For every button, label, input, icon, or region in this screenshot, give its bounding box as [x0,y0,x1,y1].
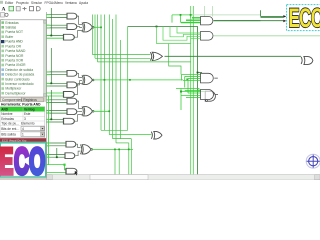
XOR2 output wire long [93,79,183,81]
dark vertical net [128,27,198,175]
property grid [0,107,45,138]
svg-text:Herramienta: Puerta AND: Herramienta: Puerta AND [1,103,41,107]
svg-text:Salidas: Salidas [5,26,16,30]
gate-to-xor elbows cluster 4 [76,144,81,156]
bright selected wires into AND3a [181,18,201,23]
svg-text:FPGA4Menu: FPGA4Menu [45,1,64,5]
bright wire into XOR5 [109,134,151,136]
panel divider [45,12,47,178]
XOR gate X4 [81,145,93,155]
input wires cluster 1 [47,8,67,36]
svg-text:Simular: Simular [31,1,43,5]
svg-text:Ventana: Ventana [65,1,77,5]
AND3a output to ECO [214,17,284,20]
input arrows at ECO [283,15,286,18]
ECO display component top right [287,3,320,33]
AND gate C1 [64,34,75,40]
AND gate C3 [64,118,75,124]
svg-text:Detector de pasada: Detector de pasada [5,73,34,77]
bright wires into XOR4b [176,89,205,111]
junction dot cluster 2 [50,82,52,84]
combo boxes [21,126,44,130]
svg-text:Registros: Registros [23,98,37,102]
svg-text:Editor: Editor [5,1,14,5]
output stubs [214,78,218,94]
svg-text:Puerta XNOR: Puerta XNOR [5,63,26,67]
cluster 2 : three AND gates + XOR [47,48,189,165]
svg-text:Puerta NOT: Puerta NOT [5,30,23,34]
selected green row [0,107,44,111]
svg-text:4: 4 [22,127,24,131]
svg-text:Nombre: Nombre [1,112,13,116]
tabs [0,97,47,102]
svg-text:Multiplexor: Multiplexor [5,87,22,91]
XOR4 output wire [92,148,133,150]
AND gate C2 [64,92,75,98]
mini tool row [1,13,9,21]
junction dot cluster 1 [50,35,52,37]
ECO preview box [0,142,46,183]
svg-text:ECO: ECO [288,3,320,33]
svg-text:Demultiplexor: Demultiplexor [5,91,26,95]
wires into AND3b [157,27,201,44]
svg-text:Entradas: Entradas [1,117,14,121]
svg-text:Este: Este [24,112,31,116]
cluster 4 : three AND gates + XOR [47,141,133,175]
svg-text:AND: AND [1,107,9,111]
gate-to-xor elbows cluster 2 [75,73,83,94]
svg-text:Componentes: Componentes [2,98,22,102]
pan crosshair icon [306,154,320,168]
pale wire to ECO stub [193,14,261,16]
AND gate B1 [67,24,77,30]
svg-text:Puerta NOR: Puerta NOR [5,54,24,58]
input wires cluster 3 [47,90,67,122]
AND3b output pale to right edge [214,35,320,37]
svg-text:3: 3 [24,117,26,121]
pale stubs top right [205,6,213,17]
svg-text:Tipo de pu...: Tipo de pu... [1,122,19,126]
AND gate B2 [67,82,77,88]
svg-text:Verilog: Verilog [24,107,35,111]
junction dots cluster 4 [56,156,58,158]
bright input wires AND4c [47,165,66,173]
XORmid long output wire to right [165,55,302,57]
svg-text:Inversor controlado: Inversor controlado [5,82,33,86]
red banner [0,138,47,142]
bus horizontal wires [93,55,191,143]
cluster 1 : three AND gates + XOR [47,8,102,40]
toolbar icons [2,6,41,12]
XOR gate X1 [82,22,94,32]
AND gate T1 [201,17,213,25]
branch from dark net junction [169,44,181,75]
mouse cursor [75,171,78,176]
svg-text:Puerta AND: Puerta AND [5,40,23,44]
input wires cluster 4 [47,143,66,157]
svg-text:Bufer controlado: Bufer controlado [5,77,29,81]
XOR gate X2 [82,75,94,85]
svg-text:1: 1 [22,133,24,137]
gate-to-xor elbows cluster 3 [75,101,83,121]
component list box [0,20,46,97]
AND gate A4 [66,141,76,147]
svg-text:Bufer: Bufer [5,35,14,39]
svg-text:Detector de subida: Detector de subida [5,68,33,72]
AND gate R2 [201,90,214,100]
svg-text:Entradas: Entradas [5,21,19,25]
bottom horizontal scrollbar [47,175,320,180]
svg-text:Puerta XOR: Puerta XOR [5,59,23,63]
svg-text:Ayuda: Ayuda [79,1,88,5]
svg-text:E: E [0,142,13,180]
component list items [1,21,34,96]
AND gate A1 [67,13,77,19]
svg-text:Proyecto: Proyecto [16,1,29,5]
XOR5 gate with chevron input [151,131,162,139]
D-shaped gate XOR4b [176,89,215,111]
junction dot cluster 3 [50,118,52,120]
svg-text:O: O [29,142,45,180]
svg-text:Bits de ent...: Bits de ent... [1,127,19,131]
AND gate C4 [66,168,77,174]
bright wires into AND4b [181,91,201,98]
right-edge XOR gate (XOR6) [301,56,313,64]
AND gate B3 [67,109,77,115]
AND gate A2 [67,70,77,76]
svg-text:Bits salida: Bits salida [1,133,16,137]
bright input wire AND1c [47,37,64,39]
AND gate B4 [65,153,75,159]
junction on dark net [156,26,158,28]
XOR1 output wire [93,26,101,28]
AND gate R1 [201,73,214,83]
mid XOR gate (XORmid) [150,52,301,60]
svg-text:Elemento: Elemento [21,122,35,126]
top-right AND gates AND3a/AND3b [157,10,320,43]
AND gate A3 [67,98,77,104]
input wires cluster 2 [47,48,67,86]
bright feeder segment with drops [172,15,193,23]
right tall bus pair [191,6,194,174]
bright connector stubs at panel edge [47,15,50,158]
svg-text:Puerta OR: Puerta OR [5,44,21,48]
panel bottom strip [0,178,47,180]
XOR3 output wire [93,110,109,112]
svg-text:C: C [14,142,29,180]
AND gate T2 [201,32,213,41]
bright staircase wires into AND4a [182,75,201,94]
gate-to-xor elbows cluster 1 [75,16,83,37]
bright input wires AND2c [47,93,64,165]
menu bar [0,1,88,5]
cluster 3 : three AND gates + XOR [47,90,111,124]
right AND gate pair (bus consumers) AND4a/AND4b [181,72,218,100]
vertical bus wires [93,15,132,175]
svg-text:A: A [2,7,6,13]
svg-text:Puerta NAND: Puerta NAND [5,49,26,53]
XOR gate X3 [82,106,94,116]
